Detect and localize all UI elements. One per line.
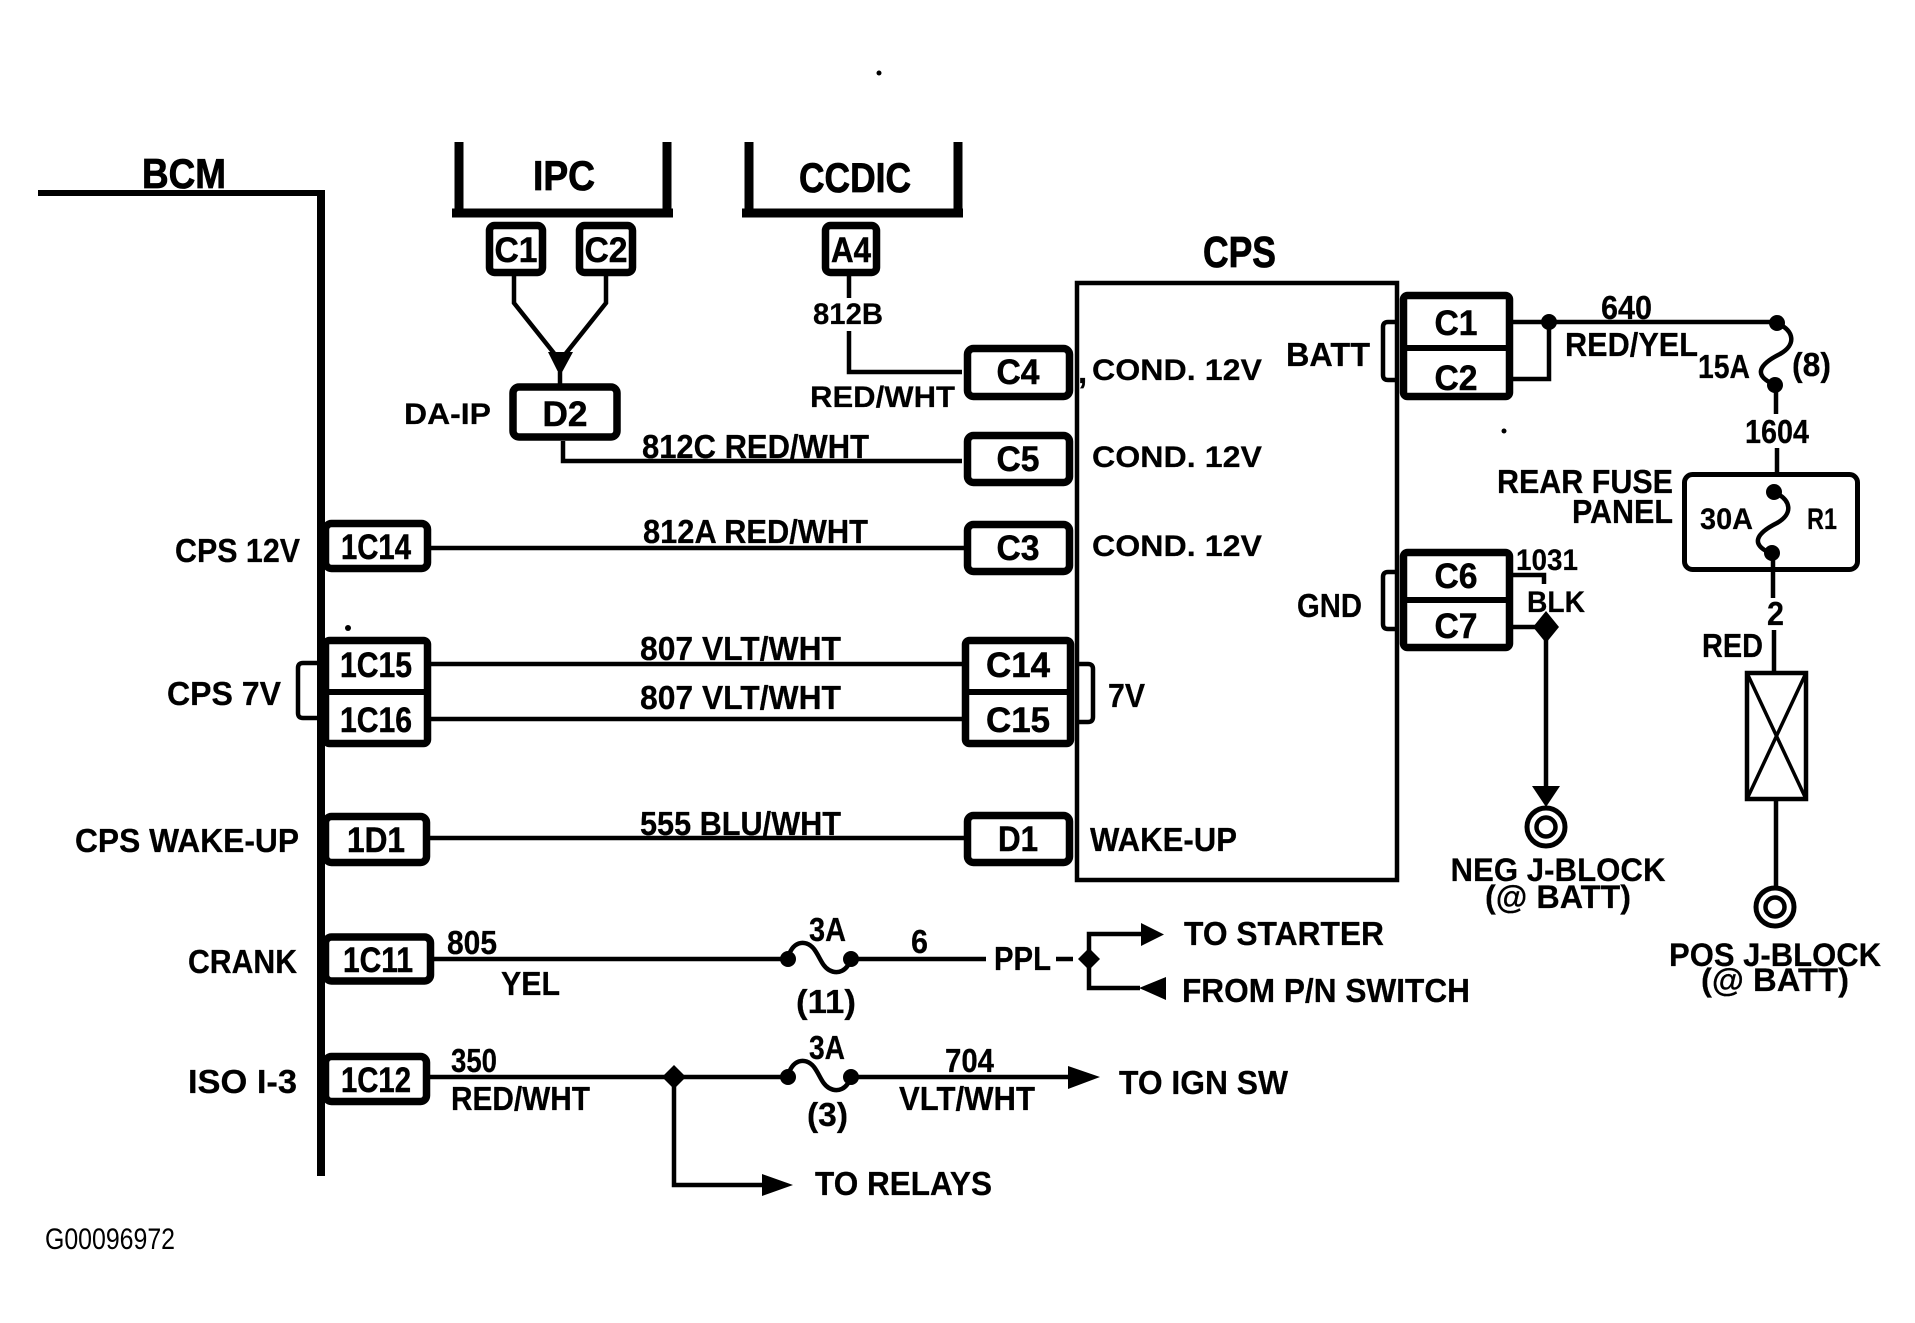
wire 805 bbox=[434, 957, 784, 962]
fuse 3A(3) element bbox=[788, 1061, 851, 1090]
wire 555 bbox=[430, 836, 964, 841]
wire 812B lower segment to C4 bbox=[849, 331, 962, 372]
wire branch from P/N switch bbox=[1089, 959, 1140, 988]
svg-text:ISO I-3: ISO I-3 bbox=[188, 1063, 297, 1100]
svg-text:1031: 1031 bbox=[1516, 544, 1578, 577]
CPS box bbox=[1077, 283, 1397, 880]
svg-text:1C12: 1C12 bbox=[341, 1061, 411, 1100]
svg-text:30A: 30A bbox=[1700, 503, 1753, 536]
NEG J-BLOCK terminal inner circle bbox=[1537, 818, 1556, 837]
svg-text:15A: 15A bbox=[1698, 348, 1750, 385]
wire 807 row2 bbox=[431, 717, 964, 722]
wire 807 row1 bbox=[431, 662, 964, 667]
arrowhead to relays bbox=[762, 1174, 793, 1196]
svg-text:FROM P/N SWITCH: FROM P/N SWITCH bbox=[1182, 972, 1470, 1009]
connector pair C1/C2 (BATT) bbox=[1400, 296, 1513, 399]
wire 704 bbox=[851, 1075, 1070, 1080]
diamond junction bbox=[1533, 611, 1559, 643]
wire diamond to NEG arrow bbox=[1544, 640, 1549, 786]
connector pair 1C15/1C16 (BCM) bbox=[322, 641, 431, 744]
NEG J-BLOCK terminal outer circle bbox=[1527, 808, 1565, 846]
svg-text:1C11: 1C11 bbox=[343, 941, 413, 980]
svg-text:CPS 7V: CPS 7V bbox=[167, 675, 281, 712]
fuse R1 bottom dot bbox=[1764, 545, 1780, 561]
svg-text:IPC: IPC bbox=[533, 152, 595, 199]
svg-text:C5: C5 bbox=[997, 440, 1040, 479]
svg-text:C2: C2 bbox=[1435, 359, 1478, 398]
arrowhead to ign sw bbox=[1068, 1066, 1100, 1089]
wire 812B upper segment bbox=[847, 276, 852, 298]
svg-text:3A: 3A bbox=[809, 911, 846, 948]
POS J-BLOCK terminal outer circle bbox=[1756, 888, 1794, 926]
wire fuse to 1604 bbox=[1774, 391, 1779, 414]
wire crossed box to POS J-BLOCK bbox=[1774, 799, 1779, 886]
wire 1031 stub from C6 bbox=[1510, 575, 1544, 584]
fuse 3A(3) right dot bbox=[843, 1069, 859, 1085]
svg-text:R1: R1 bbox=[1807, 503, 1837, 536]
crossed box connector bbox=[1747, 673, 1806, 799]
connector 1C12 (BCM) bbox=[326, 1057, 427, 1102]
arrowhead to starter bbox=[1141, 923, 1164, 946]
connector D1 (CPS) bbox=[968, 816, 1070, 863]
connector pair C6/C7 (GND) bbox=[1400, 553, 1513, 648]
svg-text:1D1: 1D1 bbox=[347, 821, 405, 860]
svg-text:,: , bbox=[1078, 353, 1087, 390]
svg-text:807 VLT/WHT: 807 VLT/WHT bbox=[640, 679, 841, 716]
svg-text:(8): (8) bbox=[1792, 346, 1831, 383]
junction triangle DA-IP node bbox=[548, 352, 573, 376]
wire 640 to fuse bbox=[1553, 320, 1773, 325]
svg-text:C2: C2 bbox=[585, 231, 628, 270]
svg-text:(@ BATT): (@ BATT) bbox=[1701, 962, 1849, 998]
junction dot relays bbox=[662, 1065, 686, 1089]
svg-text:COND. 12V: COND. 12V bbox=[1092, 530, 1262, 563]
svg-text:1604: 1604 bbox=[1745, 413, 1810, 450]
wire 812A bbox=[431, 546, 964, 551]
svg-text:C1: C1 bbox=[1435, 304, 1478, 343]
svg-text:DA-IP: DA-IP bbox=[404, 398, 491, 431]
svg-text:C3: C3 bbox=[997, 529, 1040, 568]
svg-text:BLK: BLK bbox=[1527, 586, 1585, 619]
svg-text:D2: D2 bbox=[543, 395, 588, 434]
speck near fuse panel bbox=[1502, 429, 1507, 434]
svg-text:1C14: 1C14 bbox=[341, 528, 411, 567]
7V pin bracket bbox=[1076, 664, 1093, 722]
NEG arrowhead bbox=[1532, 786, 1560, 807]
connector C3 (CPS) bbox=[968, 525, 1070, 572]
fuse R1 top dot bbox=[1766, 484, 1782, 500]
connector C2 (IPC) bbox=[580, 226, 633, 273]
fuse 15A top dot bbox=[1769, 315, 1785, 331]
svg-text:RED/YEL: RED/YEL bbox=[1565, 326, 1698, 363]
wire 6 bbox=[851, 957, 986, 962]
wire branch to starter bbox=[1089, 934, 1142, 959]
svg-text:COND. 12V: COND. 12V bbox=[1092, 354, 1262, 387]
svg-text:C7: C7 bbox=[1435, 607, 1478, 646]
svg-text:TO IGN SW: TO IGN SW bbox=[1119, 1064, 1289, 1101]
connector 1C14 (BCM) bbox=[326, 524, 428, 569]
arrowhead from P/N switch bbox=[1139, 977, 1166, 1000]
svg-text:2: 2 bbox=[1767, 595, 1784, 632]
svg-text:BATT: BATT bbox=[1286, 336, 1370, 373]
svg-text:WAKE-UP: WAKE-UP bbox=[1090, 821, 1237, 858]
svg-text:PANEL: PANEL bbox=[1572, 493, 1673, 530]
wire junction to D2 bbox=[558, 372, 563, 386]
svg-text:CPS: CPS bbox=[1203, 228, 1276, 277]
svg-text:805: 805 bbox=[447, 924, 497, 961]
wire C7 to diamond junction bbox=[1510, 625, 1538, 630]
svg-text:YEL: YEL bbox=[501, 965, 560, 1002]
svg-text:(3): (3) bbox=[807, 1096, 848, 1133]
svg-text:807 VLT/WHT: 807 VLT/WHT bbox=[640, 630, 841, 667]
svg-text:C4: C4 bbox=[997, 353, 1041, 392]
wire IPC C2 to junction bbox=[563, 276, 606, 357]
svg-text:(11): (11) bbox=[796, 983, 856, 1020]
svg-text:COND. 12V: COND. 12V bbox=[1092, 441, 1262, 474]
junction dot PPL bbox=[1078, 948, 1100, 970]
rear fuse panel box bbox=[1685, 475, 1858, 570]
connector C5 (CPS) bbox=[968, 436, 1070, 483]
BCM bracket vertical wire bbox=[317, 190, 325, 1176]
wire 2 to crossed box bbox=[1772, 630, 1777, 673]
connector 1C11 (BCM) bbox=[326, 937, 431, 981]
connector 1D1 (BCM) bbox=[326, 817, 427, 863]
svg-text:C6: C6 bbox=[1435, 557, 1478, 596]
svg-text:1C16: 1C16 bbox=[340, 701, 412, 740]
svg-text:RED: RED bbox=[1702, 627, 1763, 664]
svg-text:PPL: PPL bbox=[994, 940, 1051, 977]
fuse 15A element bbox=[1761, 323, 1791, 383]
connector pair C14/C15 (CPS) bbox=[962, 641, 1074, 744]
svg-text:BCM: BCM bbox=[142, 150, 226, 197]
wire 812C from D2 to C5 bbox=[563, 441, 962, 461]
svg-text:RED/WHT: RED/WHT bbox=[810, 381, 955, 414]
wire 350 bbox=[430, 1075, 784, 1080]
svg-text:(@ BATT): (@ BATT) bbox=[1485, 879, 1631, 915]
svg-text:CRANK: CRANK bbox=[188, 943, 297, 980]
speck near 1C15 bbox=[345, 625, 351, 631]
wire to relays bbox=[674, 1077, 763, 1185]
fuse 3A(11) left dot bbox=[780, 951, 796, 967]
CPS 7V pin bracket bbox=[298, 663, 320, 718]
wire IPC C1 to junction bbox=[514, 276, 557, 357]
connector C1 (IPC) bbox=[490, 226, 543, 273]
svg-text:A4: A4 bbox=[831, 231, 871, 270]
svg-text:CCDIC: CCDIC bbox=[799, 154, 911, 201]
connector C4 (CPS) bbox=[968, 349, 1070, 397]
fuse 3A(11) element bbox=[788, 943, 851, 972]
fuse 15A bottom dot bbox=[1767, 377, 1783, 393]
fuse 3A(3) left dot bbox=[780, 1069, 796, 1085]
wire panel to 2 bbox=[1771, 556, 1776, 598]
GND pin bracket bbox=[1383, 572, 1397, 629]
svg-text:GND: GND bbox=[1297, 587, 1362, 624]
svg-text:G00096972: G00096972 bbox=[45, 1223, 175, 1256]
fuse R1 element bbox=[1758, 492, 1788, 552]
svg-text:VLT/WHT: VLT/WHT bbox=[899, 1080, 1035, 1117]
BATT pin bracket bbox=[1383, 322, 1397, 380]
svg-text:812A RED/WHT: 812A RED/WHT bbox=[643, 513, 868, 550]
svg-text:CPS 12V: CPS 12V bbox=[175, 532, 300, 569]
svg-text:D1: D1 bbox=[998, 820, 1038, 859]
connector A4 (CCDIC) bbox=[826, 226, 877, 273]
svg-text:812C RED/WHT: 812C RED/WHT bbox=[642, 428, 869, 465]
svg-text:704: 704 bbox=[945, 1042, 995, 1079]
wire 1604 to fuse panel bbox=[1775, 448, 1780, 473]
svg-text:RED/WHT: RED/WHT bbox=[451, 1080, 590, 1117]
CCDIC bracket bbox=[745, 142, 754, 215]
svg-text:TO RELAYS: TO RELAYS bbox=[815, 1165, 992, 1202]
svg-text:TO STARTER: TO STARTER bbox=[1184, 915, 1384, 952]
speck top bbox=[877, 71, 882, 76]
BCM bracket horizontal wire bbox=[38, 190, 322, 196]
svg-text:555 BLU/WHT: 555 BLU/WHT bbox=[640, 805, 841, 842]
wire C1 to 640 junction bbox=[1513, 320, 1549, 325]
wire C2 loop to junction bbox=[1513, 328, 1549, 379]
svg-text:C1: C1 bbox=[495, 231, 538, 270]
svg-text:3A: 3A bbox=[809, 1029, 845, 1066]
svg-text:640: 640 bbox=[1601, 289, 1652, 326]
IPC bracket bbox=[455, 142, 464, 215]
svg-text:C14: C14 bbox=[986, 646, 1051, 685]
svg-text:C15: C15 bbox=[986, 701, 1050, 740]
svg-text:1C15: 1C15 bbox=[340, 646, 412, 685]
svg-text:6: 6 bbox=[911, 923, 928, 960]
fuse 3A(11) right dot bbox=[843, 951, 859, 967]
svg-text:350: 350 bbox=[451, 1042, 497, 1079]
dash after PPL bbox=[1056, 957, 1073, 962]
POS J-BLOCK terminal inner circle bbox=[1766, 898, 1785, 917]
junction node 640 bbox=[1541, 314, 1557, 330]
connector D2 (DA-IP) bbox=[513, 387, 617, 437]
svg-text:CPS WAKE-UP: CPS WAKE-UP bbox=[75, 822, 299, 859]
svg-text:7V: 7V bbox=[1108, 677, 1145, 714]
svg-text:812B: 812B bbox=[813, 298, 883, 331]
